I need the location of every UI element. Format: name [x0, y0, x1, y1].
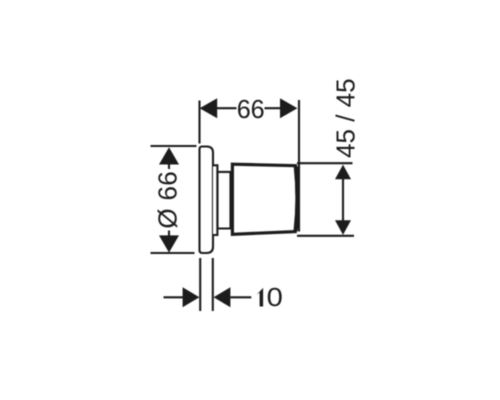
svg-text:Ø 66: Ø 66	[152, 171, 182, 229]
svg-text:0: 0	[267, 282, 283, 312]
svg-text:45 / 45: 45 / 45	[330, 78, 360, 158]
svg-text:66: 66	[237, 94, 265, 124]
